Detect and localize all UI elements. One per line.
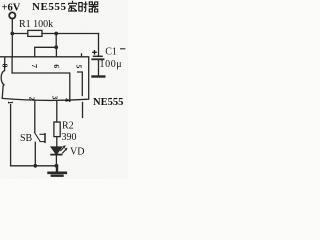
svg-text:7: 7 — [30, 64, 39, 68]
terminal +6V — [9, 12, 15, 18]
wire R2 to LED — [56, 137, 58, 147]
svg-text:2: 2 — [27, 97, 36, 101]
svg-text:5: 5 — [75, 65, 84, 69]
label C1 dash — [120, 48, 125, 50]
wire C1 top lead — [98, 34, 100, 56]
svg-text:VD: VD — [70, 147, 84, 158]
wire pin1 lead — [10, 105, 12, 166]
svg-text:100μ: 100μ — [100, 59, 123, 70]
wire top rail left — [12, 33, 27, 35]
svg-text:1: 1 — [6, 101, 15, 105]
ground — [49, 166, 66, 176]
wire pin4 lead — [82, 103, 84, 118]
wire pin8 inner — [11, 57, 13, 73]
node R1-C1 junction — [54, 32, 58, 36]
wire inner right vertical — [78, 72, 83, 96]
wire inner horizontal — [12, 73, 70, 101]
node SB-rail — [33, 164, 37, 168]
label title CJK 定时器 — [68, 1, 98, 12]
wire top rail right — [42, 33, 99, 35]
svg-text:NE555: NE555 — [32, 1, 67, 13]
svg-text:6: 6 — [52, 64, 61, 68]
wire junction drop — [55, 34, 57, 48]
wire SB bottom lead — [34, 142, 36, 166]
svg-text:C1: C1 — [105, 47, 117, 58]
pin 5 stub — [81, 54, 83, 57]
wire pin2 lead — [34, 101, 36, 132]
svg-text:8: 8 — [1, 64, 10, 68]
svg-text:4: 4 — [63, 98, 72, 102]
wire pin3 lead — [56, 101, 58, 122]
capacitor C1 — [92, 56, 104, 76]
resistor R2 — [54, 122, 60, 137]
switch SB — [35, 133, 46, 143]
svg-text:R2: R2 — [62, 121, 74, 132]
svg-text:+6V: +6V — [2, 3, 21, 14]
svg-text:3: 3 — [51, 96, 60, 100]
wire ground rail — [11, 165, 57, 167]
capacitor C1 plus sign — [92, 50, 97, 55]
node pins6-7 junction — [54, 45, 58, 49]
op IC NE555 box with notch — [1, 57, 89, 101]
svg-text:NE555: NE555 — [93, 97, 123, 108]
svg-text:390: 390 — [62, 132, 77, 143]
svg-text:SB: SB — [20, 133, 33, 144]
wire LED bottom lead — [55, 156, 57, 166]
svg-text:R1 100k: R1 100k — [19, 19, 53, 30]
diode VD LED — [51, 145, 67, 154]
wire pins 6-7 link — [35, 47, 57, 57]
node LED-rail — [55, 164, 59, 168]
resistor R1 — [28, 30, 42, 36]
wire +6V drop — [11, 19, 13, 57]
node +6V rail — [10, 32, 14, 36]
